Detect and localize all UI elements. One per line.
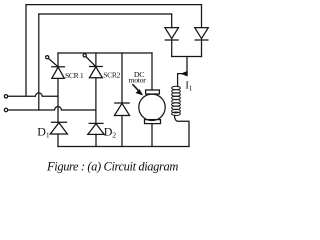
inductor L1 (field winding coil) <box>172 86 181 115</box>
wire: middle output rail (SCR cathode bus) <box>58 52 152 54</box>
svg-text:D2: D2 <box>104 125 117 140</box>
diode D2 (pointing up) <box>88 123 104 134</box>
motor top brush <box>146 90 160 94</box>
arrow: pointer from motor label to armature <box>133 85 138 90</box>
wire: right vertical from outer rail to diode D4 <box>201 5 203 28</box>
wire: inner top rail <box>39 13 172 15</box>
diode D4 (field rectifier right, pointing down) <box>195 28 209 57</box>
wire: inner left vertical down to terminal B wire <box>38 14 40 110</box>
thyristor SCR1 <box>46 56 65 79</box>
wire: outer left vertical down to terminal A wire <box>25 5 27 97</box>
wire: SCR2 leg top <box>95 53 97 67</box>
arrow: field current direction (pointing left) <box>181 71 187 76</box>
wire: D2 to bottom rail <box>95 134 97 146</box>
diode D3 (field rectifier left, pointing down) <box>165 28 179 57</box>
wire: motor to bottom rail <box>151 124 153 147</box>
freewheeling diode (pointing up) <box>114 103 129 116</box>
wire: D1 to bottom rail <box>57 134 59 147</box>
svg-text:Figure : (a) Circuit diagram: Figure : (a) Circuit diagram <box>46 160 178 174</box>
svg-text:SCR 1: SCR 1 <box>65 71 84 80</box>
motor armature M <box>139 94 165 120</box>
terminal B circle <box>4 108 7 111</box>
wire: SCR1 to D1 through terminal A junction <box>57 78 59 122</box>
wire: motor leg from rail <box>151 53 153 90</box>
wire: field tap down from bus <box>186 57 188 74</box>
svg-text:I1: I1 <box>185 80 193 92</box>
wire: terminal A to SCR1/D1 midpoint with hop over inner vertical <box>8 93 58 96</box>
wire: bottom rail <box>58 146 189 148</box>
wire: vertical from inner rail to diode D3 <box>171 14 173 28</box>
wire: SCR2 to D2 through terminal B junction <box>95 78 97 124</box>
wire: coil bottom to bottom rail <box>175 115 190 146</box>
wire: freewheeling diode leg top <box>121 53 123 103</box>
terminal A circle <box>4 95 7 98</box>
svg-text:motor: motor <box>128 76 146 85</box>
wire: SCR1 leg top <box>57 53 59 67</box>
wire: field bus joining D3 and D4 cathodes <box>172 56 202 58</box>
wire: freewheeling diode to bottom rail <box>121 116 123 147</box>
diode D1 (pointing up) <box>50 122 67 134</box>
wire: terminal B to SCR2/D2 midpoint with hop over SCR1 leg <box>8 107 96 110</box>
thyristor SCR2 <box>83 54 102 78</box>
svg-text:D1: D1 <box>37 125 50 140</box>
motor bottom brush <box>145 120 161 124</box>
wire: from tap left then down to coil top <box>178 74 187 87</box>
wire: outer top rail from left vertical to right diode leg <box>26 4 202 6</box>
svg-text:SCR2: SCR2 <box>103 71 120 80</box>
